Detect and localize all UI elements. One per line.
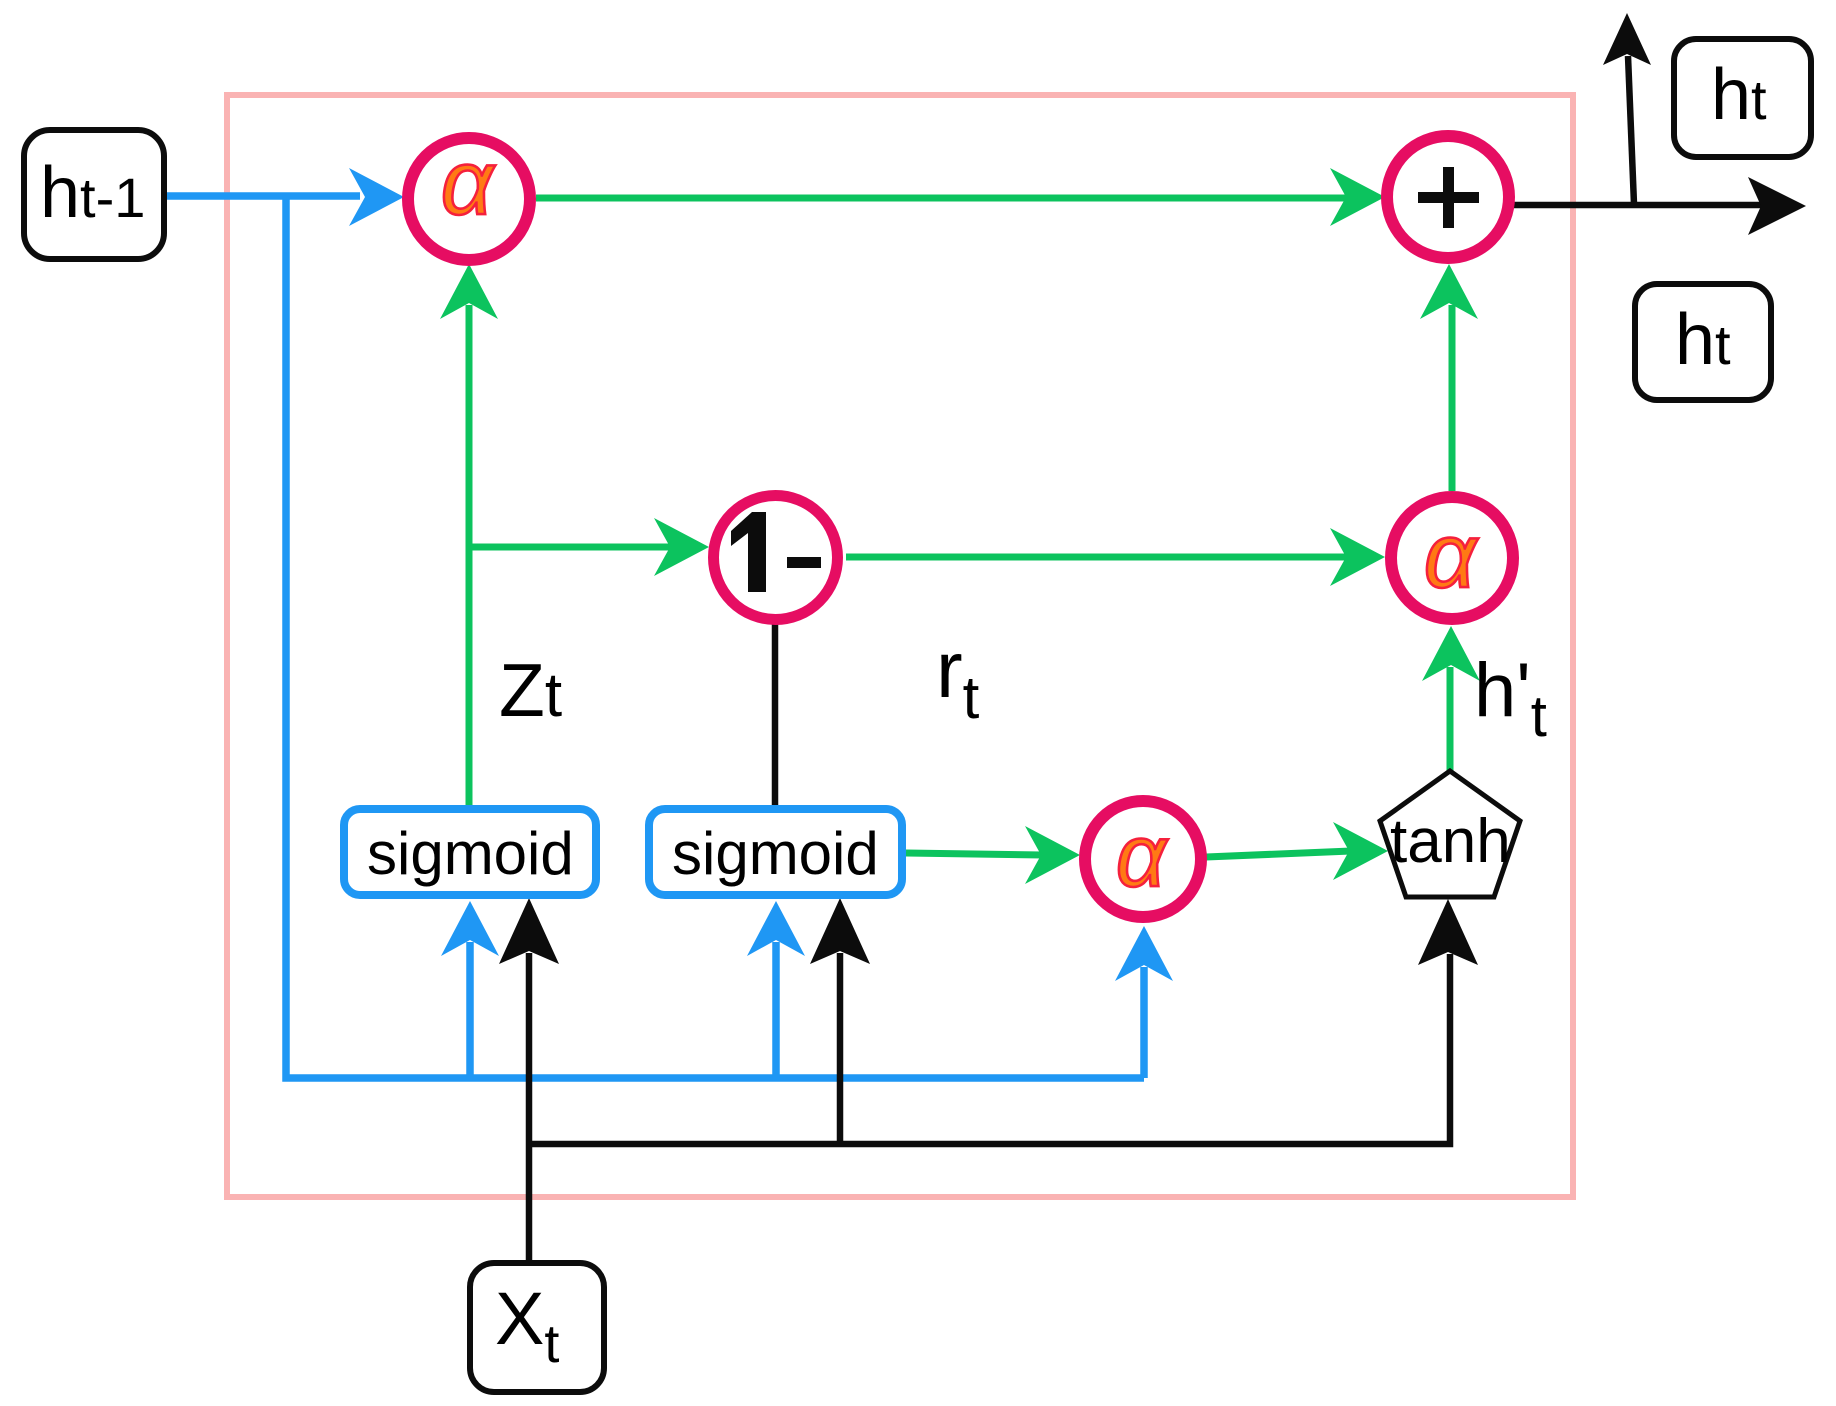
svg-text:α: α [1424, 505, 1479, 607]
svg-text:Zt: Zt [499, 648, 562, 732]
wire black output branch up [1628, 56, 1634, 204]
wire green branch to 1-minus [469, 544, 672, 551]
wire black adder output [1512, 202, 1763, 209]
arrowhead black output right [1748, 177, 1806, 235]
wire green 1-minus to multiplier2 [846, 554, 1348, 561]
multiplier1 circle [408, 138, 530, 260]
svg-text:α: α [441, 132, 496, 234]
wire black Xt up to sigmoid1 [526, 953, 533, 1260]
wire green tanh up to multiplier2 [1447, 667, 1454, 771]
arrowhead black into tanh bottom [1418, 899, 1478, 965]
multiplier3 circle [1085, 801, 1201, 917]
arrowhead green into tanh left [1333, 822, 1388, 880]
plus sign [1418, 192, 1479, 203]
arrowhead blue into multiplier1 [349, 168, 404, 226]
box ht bottom [1635, 284, 1771, 400]
svg-text:sigmoid: sigmoid [367, 820, 574, 887]
wire black branch up to sigmoid2 [837, 953, 844, 1144]
wire green sigmoid2 to multiplier3 [906, 853, 1043, 855]
pentagon tanh [1380, 771, 1520, 897]
arrowhead black into sigmoid2 [810, 898, 870, 964]
box ht-1 [24, 130, 164, 259]
box ht top [1674, 39, 1811, 157]
one-minus circle [714, 496, 838, 620]
adder circle [1387, 136, 1509, 258]
arrowhead green into multiplier2 bottom [1422, 626, 1480, 681]
arrowhead green into adder [1330, 168, 1385, 226]
arrowhead black into sigmoid1 [499, 898, 559, 964]
wire blue stub to sigmoid2 [772, 942, 780, 1078]
svg-text:α: α [1116, 806, 1169, 905]
wire blue stub to multiplier3 [1140, 967, 1148, 1078]
arrowhead blue into sigmoid1 [441, 901, 499, 956]
arrowhead green into multiplier1 bottom [440, 264, 498, 319]
wire green multiplier2 up to adder [1449, 305, 1456, 491]
svg-text:tanh: tanh [1390, 807, 1511, 876]
wire black Xt branch to tanh [529, 954, 1450, 1144]
arrowhead black output up [1603, 13, 1651, 65]
arrowhead blue into multiplier3 [1115, 926, 1173, 981]
box Xt [470, 1263, 604, 1392]
wire blue branch down [286, 196, 1144, 1078]
wire blue from ht-1 to multiplier [167, 192, 360, 200]
arrowhead green into multiplier2 left [1330, 528, 1385, 586]
wire blue stub to sigmoid1 [466, 942, 474, 1078]
arrowhead green into adder bottom [1420, 264, 1478, 319]
wire green sigmoid1 up to multiplier1 [466, 305, 473, 805]
arrowhead green into multiplier3 left [1025, 826, 1080, 884]
svg-text:sigmoid: sigmoid [672, 820, 879, 887]
arrowhead green into 1-minus [654, 518, 709, 576]
box sigmoid1 [344, 809, 596, 895]
arrowhead blue into sigmoid2 [747, 901, 805, 956]
svg-text:rt: rt [936, 625, 980, 731]
box sigmoid2 [649, 809, 902, 895]
GRU cell frame [227, 95, 1573, 1197]
multiplier2 circle [1391, 497, 1513, 619]
wire green multiplier3 to tanh [1206, 851, 1351, 857]
svg-text:h't: h't [1474, 648, 1547, 749]
wire black 1-minus down to sigmoid2 [772, 622, 779, 805]
wire green multiplier1 to adder [536, 195, 1348, 202]
